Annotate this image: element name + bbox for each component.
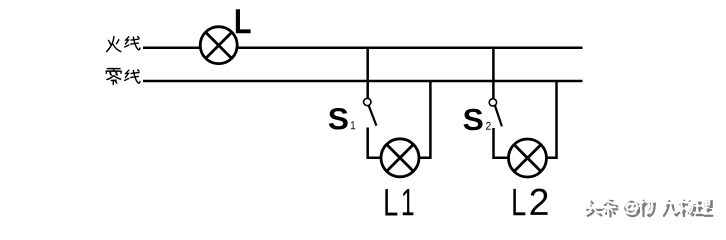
label S2 [464, 109, 483, 131]
watermark 头条@初九物理 [585, 198, 713, 217]
lamp L [200, 27, 237, 64]
wire S1 branch from live [366, 47, 369, 99]
wire neutral (零线) horizontal [143, 80, 583, 83]
label S1 [329, 108, 348, 130]
wire live (火线) horizontal [143, 47, 583, 50]
wire S2 branch from live [492, 47, 495, 99]
label 火线 (live wire label) [107, 36, 140, 51]
lamp L2 [509, 139, 547, 177]
label L2 [513, 189, 525, 215]
wire switch S1 to lamp L1 [368, 128, 400, 158]
label 零线 (neutral wire label) [106, 69, 140, 85]
label L [236, 9, 251, 33]
switch S2 [489, 99, 502, 127]
wire lamp L1 to neutral [400, 81, 430, 158]
label L1 [385, 189, 397, 215]
lamp L1 [381, 139, 419, 177]
switch S1 [364, 98, 377, 125]
wire switch S2 to lamp L2 [494, 128, 528, 158]
wire lamp L2 to neutral [528, 81, 557, 158]
